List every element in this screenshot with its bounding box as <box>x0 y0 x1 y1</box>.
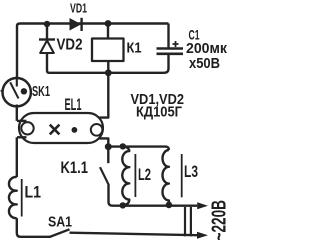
svg-text:К1: К1 <box>127 40 142 57</box>
svg-text:х50В: х50В <box>189 56 220 72</box>
svg-text:VD1: VD1 <box>70 0 87 15</box>
svg-text:200мк: 200мк <box>186 41 227 57</box>
svg-text:L2: L2 <box>138 165 151 184</box>
svg-text:SK1: SK1 <box>32 84 50 100</box>
svg-text:~220В: ~220В <box>209 200 228 241</box>
svg-text:L3: L3 <box>184 162 198 181</box>
svg-text:КД105Г: КД105Г <box>136 104 182 121</box>
svg-text:VD2: VD2 <box>57 37 83 54</box>
svg-text:SA1: SA1 <box>48 214 72 231</box>
svg-text:EL1: EL1 <box>65 95 82 114</box>
svg-text:L1: L1 <box>25 184 42 202</box>
svg-text:K1.1: K1.1 <box>61 158 89 177</box>
